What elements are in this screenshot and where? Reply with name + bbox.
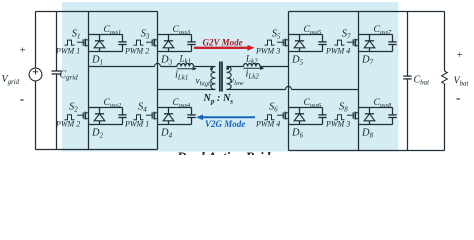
svg-text:PWM 2: PWM 2 [124,46,149,55]
transistor S4 (MOSFET switch) [146,112,158,120]
svg-text:Vbat: Vbat [454,76,470,88]
transistor S3 (MOSFET switch) [146,39,158,47]
capacitor Coss1 (output capacitance) [118,35,126,52]
label D1 [91,55,103,67]
label D6 [291,128,304,140]
transistor S5 (MOSFET switch) [277,39,289,47]
svg-text:V2G Mode: V2G Mode [205,119,245,129]
current arrow iLk2 [244,66,265,70]
label + (battery side) [457,49,463,61]
inductor Lk2 (secondary leakage) [244,64,289,67]
svg-text:Vgrid: Vgrid [2,74,20,86]
wire: cell top rail of S3 [158,34,192,36]
wire: secondary winding bottom to leg4 (with crossover hop at leg3) [229,86,359,89]
svg-text:PWM 3: PWM 3 [325,119,350,128]
wire: secondary top rail [289,11,445,13]
label PWM 2 [55,119,80,128]
label PWM 1 [55,46,80,55]
wire: cell top rail of S5 [289,34,323,36]
label S4 [138,102,147,114]
label Coss8 [374,98,393,109]
wire: secondary bottom rail [289,150,445,152]
label PWM 1 [124,119,149,128]
wire: secondary leg 2 (S7/S8) [358,12,360,151]
wire: cell bottom rail of S1 [89,51,123,53]
label iLk1 [175,69,188,81]
label Cbat [414,75,431,87]
svg-text:-: - [456,90,460,105]
label PWM 4 [255,119,280,128]
label Coss6 [304,98,323,109]
svg-text:Dual Active Bridge: Dual Active Bridge [176,150,283,156]
gate pulse symbol for S4 [134,115,144,120]
transformer core [220,62,222,92]
svg-text:PWM 4: PWM 4 [255,119,280,128]
wire: cell bottom rail of S5 [289,51,323,53]
wire: cell top rail of S8 [359,107,393,109]
transformer secondary winding (Ns, vlow) [227,67,232,90]
label Np : Ns (turns ratio) [203,93,234,106]
gate pulse symbol for S5 [265,40,275,45]
label Coss1 [104,25,122,36]
current arrow iLk1 [177,67,197,71]
wire: cell top rail of S1 [89,34,123,36]
converter region background (shaded box) [62,2,399,152]
wire: primary top rail [36,11,158,13]
label Vbat [454,76,470,88]
label Cgrid [60,70,79,82]
diode D3 (body diode) [163,35,174,52]
diode D2 (body diode) [94,108,105,125]
label Lk1 [179,53,192,65]
capacitor Coss2 (output capacitance) [118,108,126,125]
transformer primary winding (Np, vhigh) [211,67,216,90]
svg-text:+: + [457,49,463,61]
wire: secondary winding top to Lk2 [229,66,244,68]
diode D5 (body diode) [294,35,305,52]
wire: cell top rail of S7 [359,34,393,36]
wire: cell bottom rail of S6 [289,124,323,126]
label D7 [361,55,374,67]
wire: leg1 midpoint to Lk1 (with crossover hop at leg2) [89,63,178,66]
transistor S6 (MOSFET switch) [277,112,289,120]
svg-text:PWM 1: PWM 1 [124,119,149,128]
wire: cell bottom rail of S3 [158,51,192,53]
diode D4 (body diode) [163,108,174,125]
label vhigh [196,77,212,88]
label D2 [91,128,104,140]
label D8 [361,128,374,140]
label G2V Mode [203,37,243,47]
label S2 [69,102,78,114]
diode D6 (body diode) [294,108,305,125]
label vlow [230,76,244,87]
svg-text:Cbat: Cbat [414,75,431,87]
label S8 [339,102,348,114]
label PWM 3 [255,46,280,55]
wire: primary leg 2 (S3/S4) [157,12,159,150]
gate pulse symbol for S3 [134,40,144,45]
capacitor Coss3 (output capacitance) [187,35,195,52]
svg-text:PWM 4: PWM 4 [325,46,350,55]
wire: cell bottom rail of S7 [359,51,393,53]
svg-text:-: - [20,91,24,106]
label D4 [160,128,173,140]
label - (battery side) [456,90,460,105]
label iLk2 [246,68,260,80]
label S7 [342,29,351,41]
label V2G Mode [205,119,245,129]
diode D1 (body diode) [94,35,105,52]
gate pulse symbol for S8 [335,115,345,120]
svg-text:PWM 1: PWM 1 [55,46,80,55]
diode D7 (body diode) [364,35,375,52]
capacitor Coss5 (output capacitance) [318,35,326,52]
label Coss4 [173,98,192,109]
capacitor Coss8 (output capacitance) [388,108,396,125]
inductor Lk1 (primary leakage) [177,64,214,67]
label S1 [72,29,81,41]
wire: cell bottom rail of S4 [158,124,192,126]
wire: primary winding bottom to leg2 [158,89,214,91]
gate pulse symbol for S2 [65,115,75,120]
voltage source Vgrid [29,12,42,150]
svg-text:PWM 2: PWM 2 [55,119,80,128]
gate pulse symbol for S7 [335,40,345,45]
caption: Dual Active Bridge (cropped by image edge) [176,150,283,165]
label Lk2 [245,53,258,65]
label Coss2 [104,98,123,109]
label Vgrid [2,74,20,86]
transistor S8 (MOSFET switch) [347,112,359,120]
svg-text:G2V Mode: G2V Mode [203,37,243,47]
label Coss3 [173,25,191,36]
capacitor Coss4 (output capacitance) [187,108,195,125]
label S5 [272,29,281,41]
label Coss7 [374,25,393,36]
capacitor Coss7 (output capacitance) [388,35,396,52]
wire: cell bottom rail of S8 [359,124,393,126]
transistor S2 (MOSFET switch) [77,112,89,120]
transistor S1 (MOSFET switch) [77,39,89,47]
wire: cell bottom rail of S2 [89,124,123,126]
svg-text:PWM 3: PWM 3 [255,46,280,55]
annotation arrow: V2G Mode (blue, leftward) [196,115,255,121]
wire: cell top rail of S2 [89,107,123,109]
label PWM 3 [325,119,350,128]
label S3 [141,29,150,41]
label - (grid side) [20,91,24,106]
label PWM 2 [124,46,149,55]
polarity dot (primary) [210,67,213,70]
capacitor Cgrid [52,12,62,150]
label + (grid side) [20,45,26,57]
battery (resistor-style) Vbat [442,12,448,151]
label D5 [291,55,304,67]
svg-text:+: + [20,45,26,57]
wire: cell top rail of S4 [158,107,192,109]
svg-text:Np : Ns: Np : Ns [203,93,234,106]
wire: primary bottom rail [36,149,158,151]
diode D8 (body diode) [364,108,375,125]
gate pulse symbol for S6 [265,115,275,120]
wire: secondary leg 1 (S5/S6) [288,12,290,151]
transistor S7 (MOSFET switch) [347,39,359,47]
label PWM 4 [325,46,350,55]
capacitor Cbat [403,12,411,151]
annotation arrow: G2V Mode (red, rightward) [194,45,255,51]
label Coss5 [304,25,322,36]
wire: primary leg 1 (S1/S2) [88,12,90,150]
capacitor Coss6 (output capacitance) [318,108,326,125]
polarity dot (secondary) [226,67,229,70]
wire: cell top rail of S6 [289,107,323,109]
label S6 [269,102,278,114]
label D3 [160,55,173,67]
gate pulse symbol for S1 [65,40,75,45]
